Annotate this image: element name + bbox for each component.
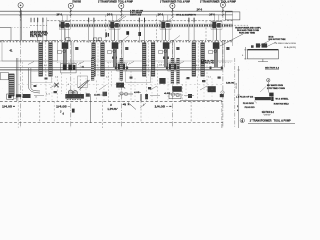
svg-text:W A STEEL: W A STEEL xyxy=(276,97,290,100)
svg-text:U: U xyxy=(110,104,112,107)
svg-text:TRANSFORMER AND COMPL: TRANSFORMER AND COMPL xyxy=(235,27,262,30)
svg-text:4.1: 4.1 xyxy=(196,65,200,67)
svg-text:SECTION 2-2: SECTION 2-2 xyxy=(262,110,274,114)
svg-text:1.1/4.1: 1.1/4.1 xyxy=(157,65,164,67)
svg-text:2' TRANSFORMER TOOL & PUMP: 2' TRANSFORMER TOOL & PUMP xyxy=(98,1,133,4)
svg-text:1/4.05 ~ =: 1/4.05 ~ = xyxy=(155,105,172,109)
svg-text:1/4.05 ~: 1/4.05 ~ xyxy=(56,105,71,109)
svg-text:1.1: 1.1 xyxy=(208,77,212,79)
svg-text:RUN AND TIME: RUN AND TIME xyxy=(239,32,256,35)
svg-text:41: 41 xyxy=(82,65,85,68)
svg-text:TIE WELD EACH SIDE: TIE WELD EACH SIDE xyxy=(274,42,297,45)
svg-text:4: 4 xyxy=(68,84,70,86)
svg-text:2 PR TIME CONN: 2 PR TIME CONN xyxy=(267,88,286,90)
svg-text:L 2 PLUS OF 1/4: L 2 PLUS OF 1/4 xyxy=(236,96,253,99)
svg-text:CONT 1 1/2: CONT 1 1/2 xyxy=(130,15,142,17)
svg-text:4.05~: 4.05~ xyxy=(134,91,142,94)
svg-text:2' TRANSFORMER TOOL & PUMP: 2' TRANSFORMER TOOL & PUMP xyxy=(200,1,236,4)
svg-text:2' TRANSFORMER: 2' TRANSFORMER xyxy=(72,1,81,4)
svg-text:1.1: 1.1 xyxy=(55,77,59,79)
svg-text:L1: L1 xyxy=(118,96,121,98)
svg-text:41: 41 xyxy=(10,49,13,53)
svg-text:P.D. 1 P.D.: P.D. 1 P.D. xyxy=(30,36,44,38)
svg-text:24'-0: 24'-0 xyxy=(158,13,164,16)
svg-text:4: 4 xyxy=(241,119,243,123)
svg-text:BU WAN'S RUN: BU WAN'S RUN xyxy=(267,84,284,87)
svg-text:LPUS': LPUS' xyxy=(108,107,118,111)
svg-text:PLUS RO: PLUS RO xyxy=(245,107,256,109)
svg-text:6: 6 xyxy=(242,55,244,57)
svg-text:d: d xyxy=(63,113,65,116)
svg-text:24'-0: 24'-0 xyxy=(56,14,62,17)
svg-text:RUSH PAD WELD: RUSH PAD WELD xyxy=(274,103,290,106)
svg-text:1/4.05 =: 1/4.05 = xyxy=(2,104,15,108)
svg-text:2' TRANSFORMER TOOL & PUMP: 2' TRANSFORMER TOOL & PUMP xyxy=(250,119,291,123)
svg-text:24'-0: 24'-0 xyxy=(197,9,203,12)
svg-text:L1: L1 xyxy=(35,97,38,99)
svg-text:A: A xyxy=(124,87,126,90)
svg-text:129.06: 129.06 xyxy=(226,83,235,85)
svg-text:B A (B/R): B A (B/R) xyxy=(284,46,297,49)
svg-text:2' TRANSFORMER TOOL & PUMP: 2' TRANSFORMER TOOL & PUMP xyxy=(160,1,190,4)
svg-text:24'-0: 24'-0 xyxy=(107,13,113,16)
svg-text:1.1: 1.1 xyxy=(106,77,110,79)
svg-text:4.05: 4.05 xyxy=(164,92,171,95)
svg-text:VIEW: VIEW xyxy=(264,115,271,117)
svg-text:4.1: 4.1 xyxy=(146,65,150,67)
svg-text:BUS SUPPORT TUBE: BUS SUPPORT TUBE xyxy=(269,39,287,41)
svg-text:129.06: 129.06 xyxy=(236,82,238,89)
svg-text:PLUS ROD: PLUS ROD xyxy=(243,103,255,105)
svg-text:4.1: 4.1 xyxy=(44,65,48,67)
svg-text:PD PD 1 PD: PD PD 1 PD xyxy=(201,63,215,65)
svg-text:OR 3L 3L DAMPER TO: OR 3L 3L DAMPER TO xyxy=(176,14,196,17)
svg-text:1.1: 1.1 xyxy=(46,94,51,96)
